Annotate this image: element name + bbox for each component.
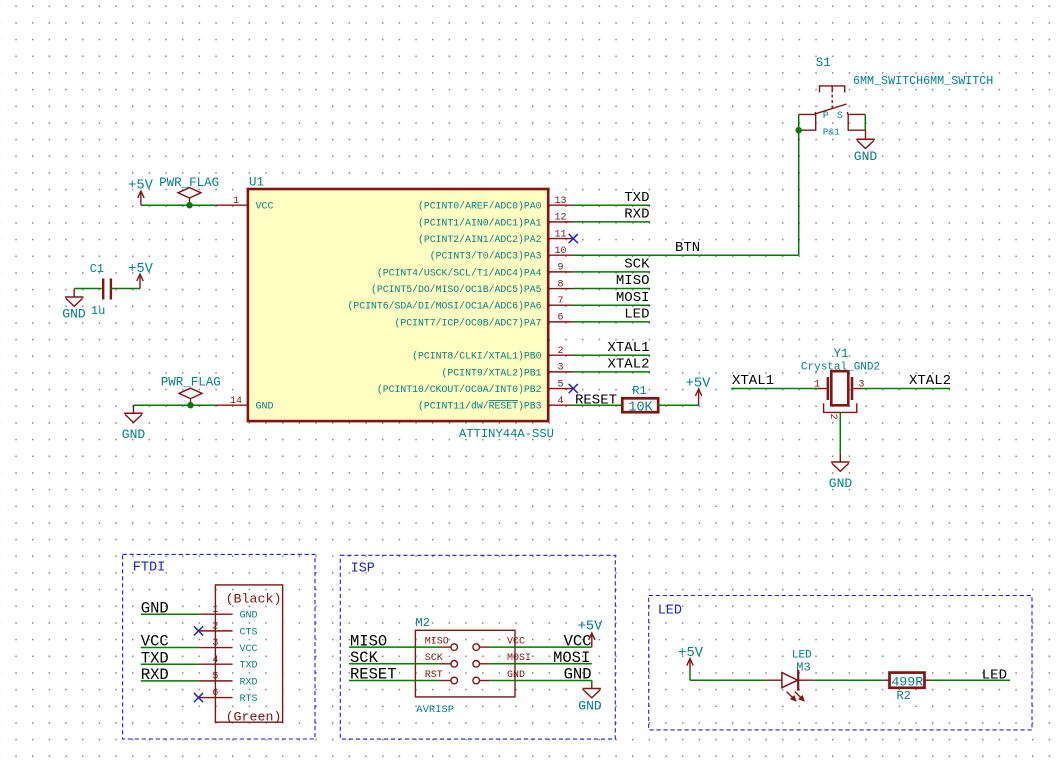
wire BTN vertical to S1 — [798, 114, 800, 255]
svg-text:5: 5 — [557, 379, 563, 390]
svg-text:TXD: TXD — [240, 661, 258, 672]
svg-text:(PCINT8/CLKI/XTAL1)PB0: (PCINT8/CLKI/XTAL1)PB0 — [412, 351, 541, 362]
ground GND (ISP) — [591, 685, 593, 689]
S1 lever — [815, 104, 846, 114]
svg-text:4: 4 — [557, 396, 563, 407]
switch S1 body bracket — [820, 86, 845, 93]
wire GND to U1 pin 14 — [134, 404, 216, 406]
M2 right pin MOSI — [473, 661, 480, 668]
wire M3 to R2 — [814, 679, 884, 681]
svg-text:RESET: RESET — [575, 392, 617, 408]
U1 pin 6 stub — [548, 321, 573, 323]
U1 pin 11 stub — [548, 238, 573, 240]
no-connect FTDI pin 2 CTS — [194, 626, 203, 635]
svg-text:LED: LED — [982, 668, 1007, 684]
Y1 pin 1 stub — [818, 388, 827, 390]
U1 pin 4 stub — [548, 404, 573, 406]
wire net XTAL2 (pin 3) — [573, 371, 650, 373]
svg-text:GND: GND — [141, 599, 169, 617]
svg-text:VCC: VCC — [141, 633, 169, 651]
svg-text:SCK: SCK — [425, 653, 443, 664]
wire S1 left pins junction — [796, 127, 802, 133]
LED M3 cathode stub — [798, 679, 814, 681]
svg-text:LED: LED — [658, 604, 682, 619]
S1 contact ticks — [814, 112, 816, 115]
svg-text:GND: GND — [829, 476, 853, 491]
wire net LED — [573, 321, 650, 323]
svg-text:(PCINT5/DO/MISO/OC1B/ADC5)PA5: (PCINT5/DO/MISO/OC1B/ADC5)PA5 — [371, 284, 542, 295]
svg-text:TXD: TXD — [624, 190, 649, 206]
FTDI pin 5 line — [199, 680, 233, 682]
FTDI pin 6 line — [199, 697, 233, 699]
svg-text:(PCINT4/USCK/SCL/T1/ADC4)PA4: (PCINT4/USCK/SCL/T1/ADC4)PA4 — [377, 267, 542, 278]
Y1 pin 2 case bracket — [824, 403, 857, 412]
svg-text:VCC: VCC — [256, 202, 274, 213]
FTDI pin 2 line — [199, 630, 233, 632]
wire net GND (ISP right) — [490, 680, 592, 682]
svg-text:(PCINT0/AREF/ADC0)PA0: (PCINT0/AREF/ADC0)PA0 — [418, 201, 542, 212]
svg-text:MOSI: MOSI — [616, 290, 650, 306]
capacitor C1 — [102, 279, 104, 300]
svg-text:(PCINT3/T0/ADC3)PA3: (PCINT3/T0/ADC3)PA3 — [430, 251, 542, 262]
R2 right stub — [925, 679, 932, 681]
svg-text:12: 12 — [554, 213, 566, 224]
M2 left pin RST — [441, 680, 451, 682]
wire net BTN (pin 10 to switch) — [573, 254, 799, 256]
svg-text:1: 1 — [212, 605, 218, 616]
junction at PWR_FLAG bottom — [187, 402, 193, 408]
wire net SCK (ISP left) — [349, 663, 440, 665]
svg-text:SCK: SCK — [350, 649, 379, 667]
U1 pin 10 stub — [548, 254, 573, 256]
svg-text:10K: 10K — [628, 400, 653, 415]
FTDI pin 3 line — [199, 647, 233, 649]
wire net VCC (ISP right) — [490, 646, 592, 648]
svg-text:S1: S1 — [816, 56, 831, 70]
S1 plunger dashed link — [831, 95, 833, 109]
svg-text:4: 4 — [212, 655, 218, 666]
svg-text:RTS: RTS — [240, 694, 258, 705]
svg-text:FTDI: FTDI — [133, 561, 165, 576]
svg-text:GND: GND — [256, 402, 274, 413]
svg-text:+5V: +5V — [686, 377, 712, 392]
wire net TXD — [573, 204, 650, 206]
wire net RXD (FTDI) — [141, 680, 199, 682]
svg-text:GND: GND — [564, 666, 592, 684]
svg-text:(PCINT6/SDA/DI/MOSI/OC1A/ADC6): (PCINT6/SDA/DI/MOSI/OC1A/ADC6)PA6 — [347, 301, 541, 312]
svg-text:GND: GND — [240, 611, 258, 622]
wire net RESET (ISP left) — [349, 680, 440, 682]
U1 pin 2 stub — [548, 354, 573, 356]
svg-text:5: 5 — [212, 672, 218, 683]
svg-text:2: 2 — [827, 414, 838, 420]
wire net XTAL1 (pin 2) — [573, 354, 650, 356]
Y1 pin 3 stub — [853, 388, 861, 390]
svg-text:+5V: +5V — [128, 178, 154, 193]
resistor R1 — [622, 398, 658, 412]
power PWR_FLAG (bottom) — [190, 399, 192, 406]
svg-text:13: 13 — [554, 196, 566, 207]
power +5V (top left) — [140, 192, 142, 205]
svg-text:2: 2 — [557, 346, 563, 357]
svg-text:XTAL2: XTAL2 — [909, 373, 951, 389]
connector M2 body — [415, 630, 515, 697]
svg-text:PWR_FLAG: PWR_FLAG — [161, 376, 221, 390]
svg-text:ATTINY44A-SSU: ATTINY44A-SSU — [459, 427, 554, 441]
svg-text:+5V: +5V — [678, 646, 704, 661]
svg-text:MOSI: MOSI — [507, 653, 531, 664]
no-connect pin 5 — [569, 384, 578, 393]
svg-text:R1: R1 — [632, 384, 646, 398]
svg-text:VCC: VCC — [507, 637, 525, 648]
wire net VCC (FTDI) — [141, 647, 199, 649]
power +5V (C1) — [139, 275, 141, 289]
ground GND (Y1) — [839, 454, 841, 462]
no-connect pin 11 — [569, 234, 578, 243]
U1 pin 13 stub — [548, 204, 573, 206]
wire +5V to U1 pin 1 — [141, 204, 216, 206]
svg-text:ISP: ISP — [351, 562, 375, 577]
wire C1 to +5V — [111, 288, 140, 290]
svg-text:RESET: RESET — [350, 666, 397, 684]
power +5V (R1) — [698, 390, 700, 405]
svg-text:SCK: SCK — [624, 257, 650, 273]
svg-text:C1: C1 — [90, 262, 104, 276]
wire net MISO — [573, 288, 650, 290]
svg-text:GND: GND — [854, 149, 878, 164]
svg-text:GND: GND — [62, 307, 86, 322]
svg-text:MISO: MISO — [350, 632, 387, 650]
svg-text:GND: GND — [122, 427, 146, 442]
svg-text:Y1: Y1 — [834, 347, 849, 361]
svg-text:R2: R2 — [896, 689, 910, 703]
ground GND (C1) — [73, 289, 75, 297]
svg-text:6: 6 — [557, 313, 563, 324]
svg-text:M3: M3 — [796, 660, 810, 674]
svg-text:RXD: RXD — [624, 207, 649, 223]
U1 pin 8 stub — [548, 288, 573, 290]
svg-text:VCC: VCC — [240, 644, 258, 655]
svg-text:PWR_FLAG: PWR_FLAG — [159, 176, 219, 190]
svg-text:BTN: BTN — [675, 240, 700, 256]
wire S1 right pins vertical — [864, 114, 866, 130]
R2 left stub — [884, 679, 890, 681]
wire GND to C1 — [74, 288, 102, 290]
resistor R2 — [890, 673, 925, 688]
U1 pin 1 stub — [216, 204, 248, 206]
U1 pin 5 stub — [548, 388, 573, 390]
wire net RESET (pin 4 to R1) — [573, 404, 622, 406]
wire net RXD — [573, 221, 650, 223]
svg-text:GND: GND — [507, 670, 525, 681]
wire Y1 pin 2 to GND — [839, 412, 841, 453]
S1 left pin hook — [799, 114, 816, 130]
junction at PWR_FLAG top — [186, 202, 192, 208]
U1 pin 14 stub — [216, 404, 248, 406]
svg-text:(PCINT9/XTAL2)PB1: (PCINT9/XTAL2)PB1 — [442, 367, 542, 378]
FTDI pin 4 line — [199, 663, 233, 665]
M2 left pin MISO — [441, 646, 451, 648]
power PWR_FLAG (top) — [189, 198, 191, 205]
svg-text:(Green): (Green) — [226, 710, 282, 725]
M2 left pin SCK — [441, 663, 451, 665]
wire net SCK — [573, 271, 650, 273]
no-connect FTDI pin 6 RTS — [194, 693, 203, 702]
svg-text:LED: LED — [624, 307, 649, 323]
wire net MOSI — [573, 304, 650, 306]
U1 pin 12 stub — [548, 221, 573, 223]
ground GND (U1 pin 14) — [133, 405, 135, 413]
svg-text:S: S — [837, 111, 843, 122]
LED M3 emission arrows — [787, 692, 804, 701]
power +5V (LED) — [689, 660, 691, 670]
svg-text:RXD: RXD — [141, 666, 169, 684]
svg-text:VCC: VCC — [564, 632, 592, 650]
svg-text:14: 14 — [230, 396, 242, 407]
op-amp U1 ATTINY44A-SSU body — [248, 189, 548, 421]
svg-text:CTS: CTS — [240, 627, 258, 638]
crystal Y1 body — [827, 377, 830, 400]
svg-text:7: 7 — [557, 296, 563, 307]
U1 pin 3 stub — [548, 371, 573, 373]
svg-text:XTAL1: XTAL1 — [607, 340, 649, 356]
svg-text:P&1: P&1 — [823, 127, 840, 138]
wire net XTAL2 (from Y1 pin 3) — [862, 388, 951, 390]
svg-text:P: P — [823, 111, 829, 122]
M2 right pin GND — [473, 677, 480, 684]
M2 right pin VCC — [473, 644, 480, 651]
svg-text:AVRISP: AVRISP — [416, 704, 454, 716]
ISP section dashed box — [340, 555, 615, 739]
svg-text:1: 1 — [233, 196, 239, 207]
ground GND (S1) — [856, 138, 875, 140]
svg-text:MISO: MISO — [616, 273, 650, 289]
svg-text:XTAL2: XTAL2 — [607, 357, 649, 373]
svg-text:(PCINT10/CKOUT/OC0A/INT0)PB2: (PCINT10/CKOUT/OC0A/INT0)PB2 — [377, 384, 542, 395]
svg-text:(PCINT7/ICP/OC0B/ADC7)PA7: (PCINT7/ICP/OC0B/ADC7)PA7 — [395, 317, 542, 328]
FTDI connector body — [215, 585, 282, 722]
U1 pin 4 RESET overline — [489, 400, 518, 402]
svg-text:+5V: +5V — [578, 620, 604, 635]
svg-text:MOSI: MOSI — [553, 649, 590, 667]
svg-text:(PCINT1/AIN0/ADC1)PA1: (PCINT1/AIN0/ADC1)PA1 — [418, 217, 542, 228]
svg-text:GND: GND — [578, 699, 602, 714]
svg-text:+5V: +5V — [128, 262, 154, 277]
svg-text:11: 11 — [554, 229, 566, 240]
svg-text:(PCINT2/AIN1/ADC2)PA2: (PCINT2/AIN1/ADC2)PA2 — [418, 234, 542, 245]
wire +5V down to LED row — [689, 670, 691, 680]
svg-text:8: 8 — [557, 279, 563, 290]
svg-text:RST: RST — [425, 670, 443, 681]
wire R1 to +5V — [658, 404, 698, 406]
svg-text:(PCINT11/dW/RESET)PB3: (PCINT11/dW/RESET)PB3 — [418, 401, 542, 412]
U1 pin 7 stub — [548, 304, 573, 306]
wire net GND (FTDI) — [141, 613, 199, 615]
U1 pin 9 stub — [548, 271, 573, 273]
wire net XTAL1 (to Y1 pin 1) — [731, 388, 818, 390]
svg-text:1u: 1u — [91, 304, 105, 318]
svg-text:XTAL1: XTAL1 — [732, 373, 774, 389]
LED M3 diode — [782, 673, 798, 688]
FTDI section dashed box — [123, 554, 315, 739]
LED M3 anode stub — [766, 679, 782, 681]
svg-text:MISO: MISO — [425, 637, 449, 648]
svg-text:6MM_SWITCH6MM_SWITCH: 6MM_SWITCH6MM_SWITCH — [853, 74, 993, 88]
svg-text:U1: U1 — [249, 176, 264, 190]
svg-text:499R: 499R — [891, 674, 923, 689]
svg-text:1: 1 — [814, 380, 820, 391]
svg-text:Crystal_GND2: Crystal_GND2 — [801, 362, 880, 374]
wire net MISO (ISP left) — [349, 646, 440, 648]
wire +5V corner to LED anode — [690, 679, 766, 681]
S1 right pin hook — [848, 114, 866, 139]
FTDI pin 1 line — [199, 613, 233, 615]
svg-text:M2: M2 — [415, 616, 430, 630]
svg-text:RXD: RXD — [240, 677, 258, 688]
wire R2 to LED net — [931, 679, 1010, 681]
LED section dashed box — [649, 596, 1032, 730]
svg-text:(Black): (Black) — [226, 592, 282, 607]
svg-text:TXD: TXD — [141, 649, 169, 667]
svg-text:10: 10 — [554, 246, 566, 257]
svg-text:6: 6 — [212, 688, 218, 699]
svg-text:3: 3 — [557, 363, 563, 374]
wire net TXD (FTDI) — [141, 663, 199, 665]
wire net MOSI (ISP right) — [490, 663, 592, 665]
svg-text:2: 2 — [212, 622, 218, 633]
svg-text:3: 3 — [212, 638, 218, 649]
power +5V (ISP) — [591, 634, 593, 647]
svg-text:9: 9 — [557, 263, 563, 274]
